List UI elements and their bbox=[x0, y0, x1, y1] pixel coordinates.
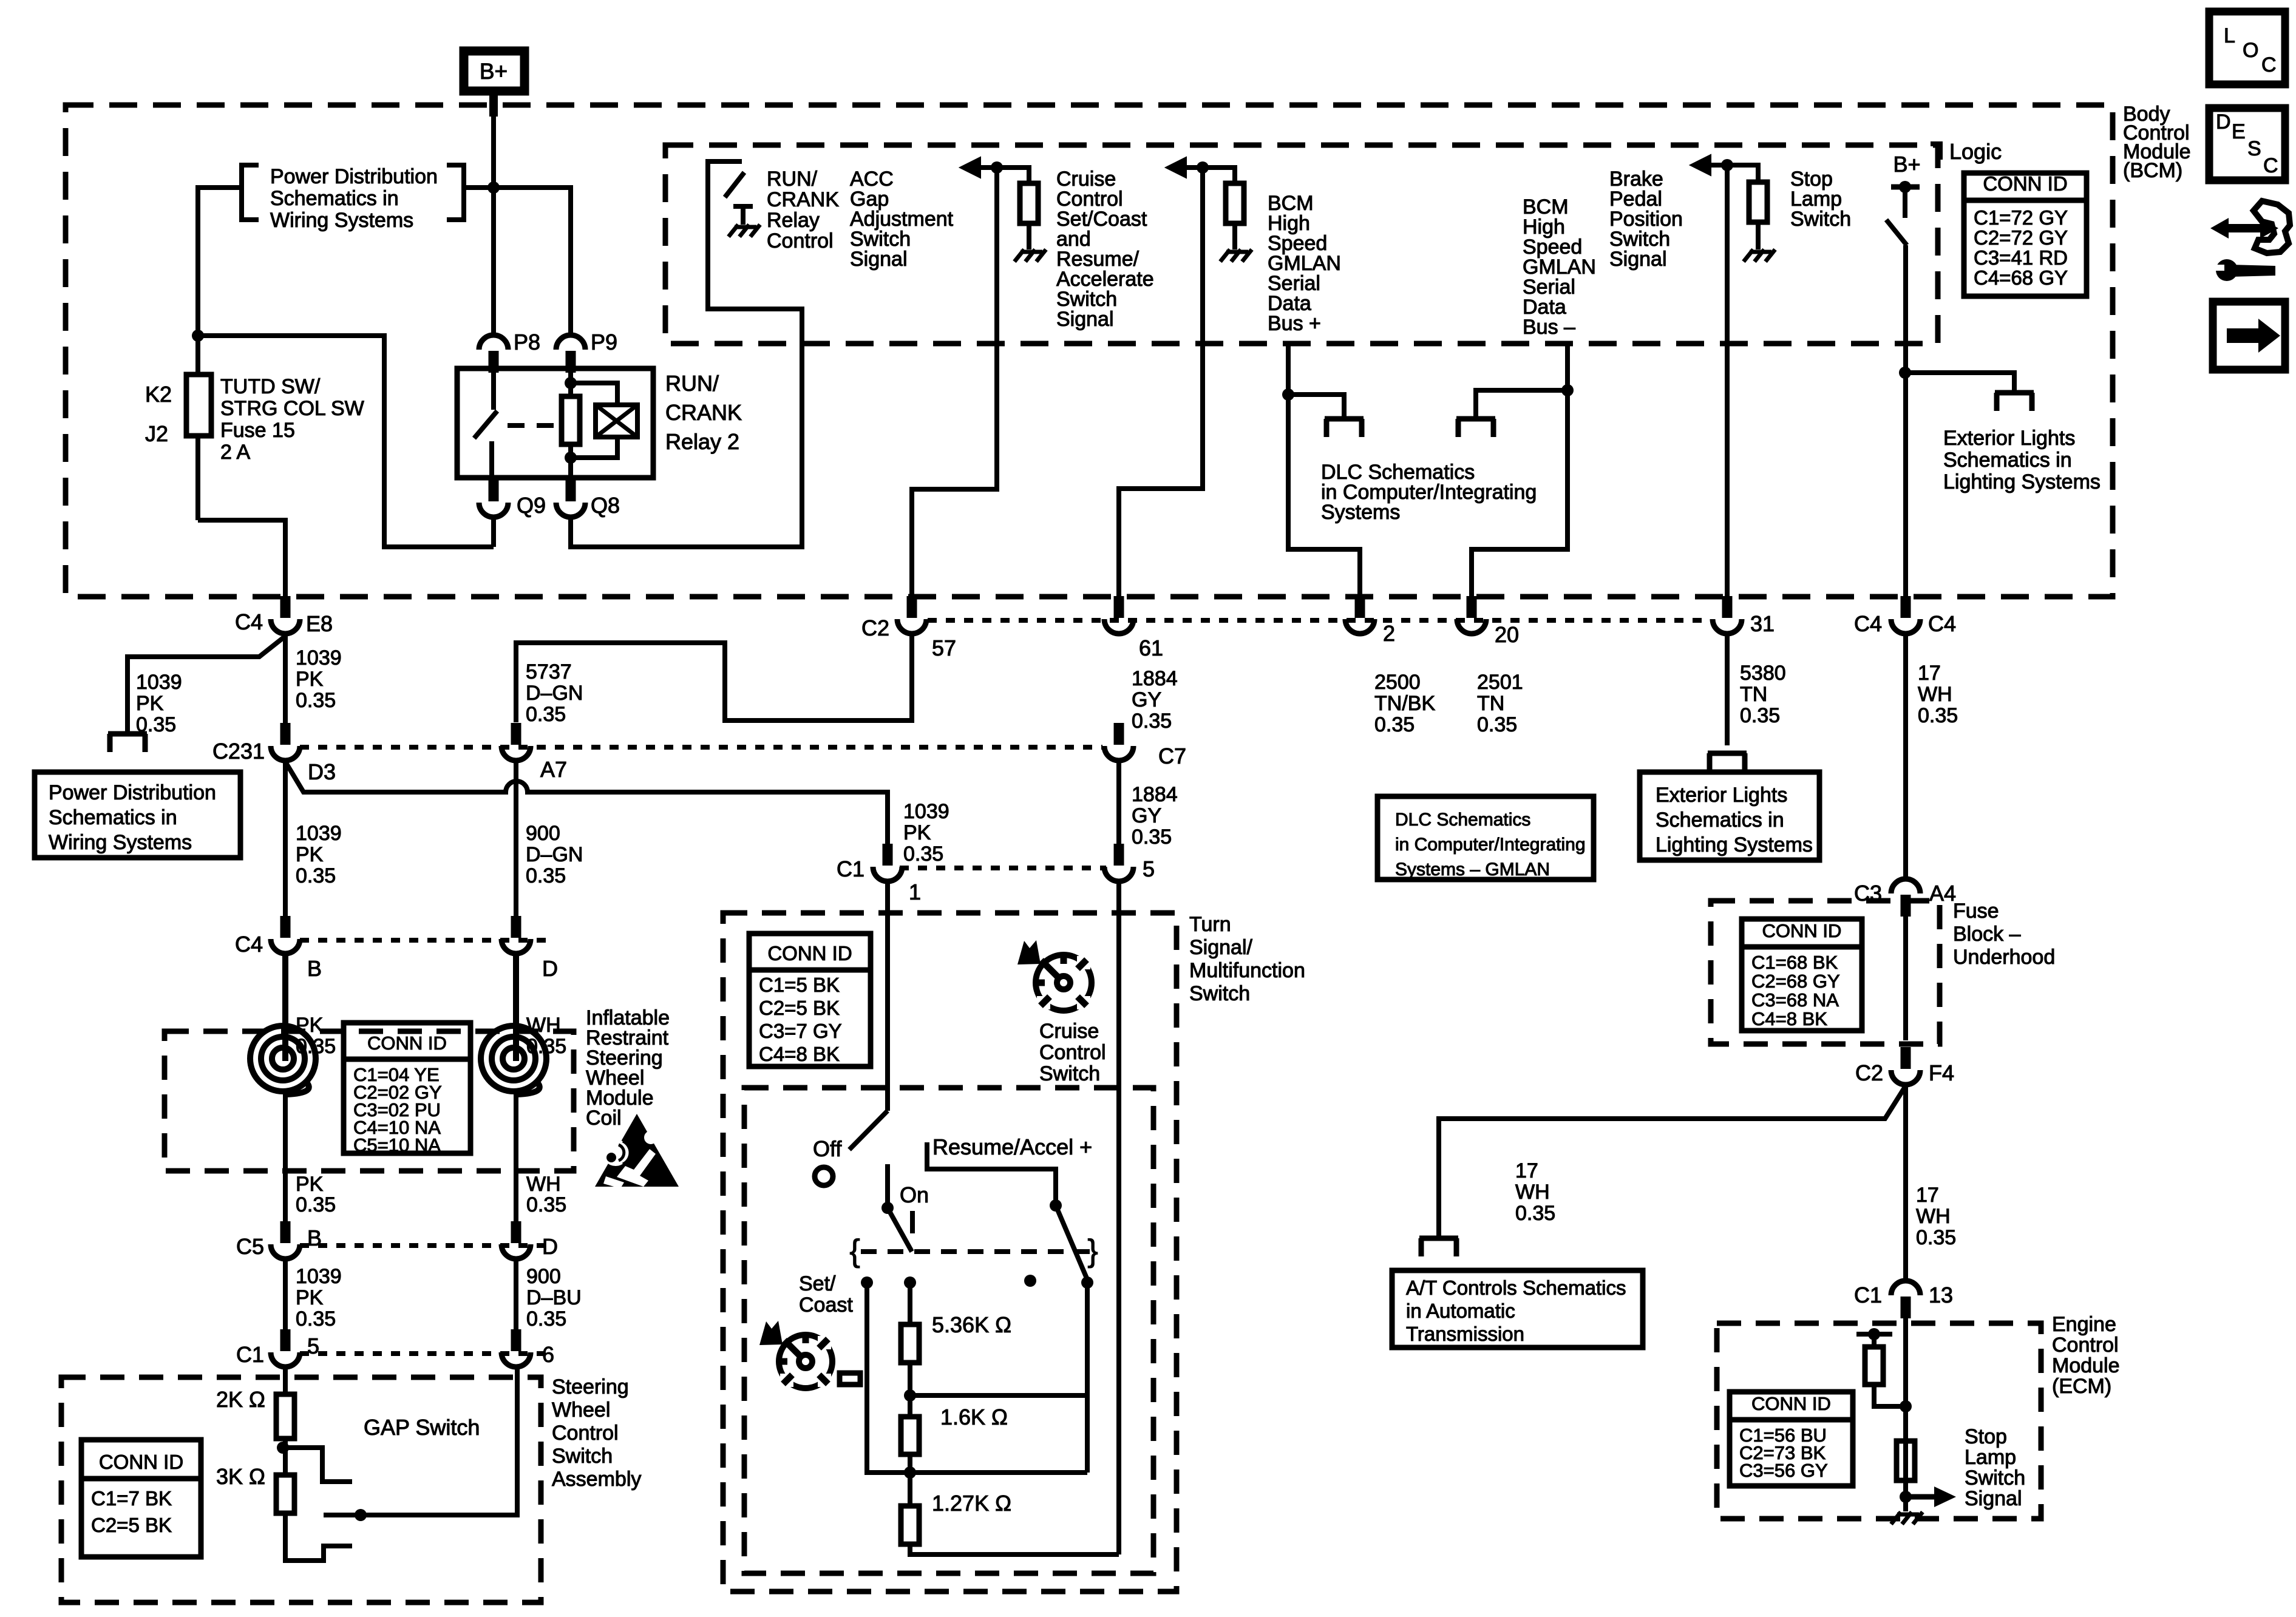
svg-text:GY: GY bbox=[1132, 804, 1161, 827]
connector C5/B bbox=[280, 1221, 291, 1243]
svg-text:O: O bbox=[2243, 39, 2258, 62]
off-page fork: exterior lights (left) bbox=[1708, 751, 1747, 756]
wire: B into coil bbox=[282, 955, 288, 1061]
wire: junction to Q9 return loop bbox=[198, 336, 494, 547]
svg-text:Schematics in: Schematics in bbox=[1943, 449, 2072, 472]
wire: R/A contact down bbox=[1085, 1283, 1090, 1473]
node: ECM junction bbox=[1900, 1400, 1912, 1412]
svg-text:A7: A7 bbox=[540, 757, 567, 782]
wire: GMLAN bus + to DLC and connector 2 bbox=[1288, 344, 1360, 598]
svg-text:Signal: Signal bbox=[850, 248, 908, 271]
connector C7 bbox=[1114, 723, 1124, 745]
node: group1 junction bbox=[991, 161, 1003, 174]
svg-text:C3=41 RD: C3=41 RD bbox=[1974, 246, 2068, 269]
node: R/A blade pivot bbox=[1050, 1199, 1062, 1212]
svg-text:Steering: Steering bbox=[552, 1375, 629, 1398]
switch blade: On to common bbox=[888, 1208, 912, 1252]
svg-text:C2: C2 bbox=[1855, 1060, 1883, 1085]
svg-text:Lamp: Lamp bbox=[1965, 1446, 2016, 1469]
svg-text:0.35: 0.35 bbox=[1132, 825, 1172, 849]
svg-text:C1: C1 bbox=[837, 856, 864, 881]
switch blade: Resume/Accel bbox=[1056, 1205, 1087, 1280]
table: ECM CONN ID bbox=[1730, 1392, 1853, 1486]
svg-text:Lighting Systems: Lighting Systems bbox=[1943, 470, 2101, 493]
svg-text:2500: 2500 bbox=[1374, 671, 1421, 694]
module box: Body Control Module (BCM) outer dashed border bbox=[66, 105, 2113, 597]
svg-text:Logic: Logic bbox=[1949, 139, 2002, 164]
table: GAP CONN ID bbox=[81, 1440, 201, 1557]
svg-text:Fuse: Fuse bbox=[1953, 900, 1999, 923]
svg-text:C1: C1 bbox=[236, 1342, 264, 1367]
svg-text:C5=10 NA: C5=10 NA bbox=[353, 1134, 441, 1156]
wire: GAP output to connector 6 bbox=[324, 1368, 517, 1515]
svg-text:D: D bbox=[2216, 110, 2231, 134]
svg-text:CONN ID: CONN ID bbox=[367, 1032, 447, 1054]
svg-text:DLC Schematics: DLC Schematics bbox=[1395, 810, 1530, 830]
svg-text:D–GN: D–GN bbox=[526, 682, 583, 705]
svg-text:PK: PK bbox=[296, 1173, 324, 1196]
connector 6 bbox=[511, 1329, 521, 1351]
svg-text:17: 17 bbox=[1916, 1184, 1939, 1207]
resistor 5.36K bbox=[901, 1324, 919, 1363]
contact tick: On bbox=[910, 1211, 915, 1233]
svg-text:C1: C1 bbox=[1854, 1283, 1882, 1307]
relay coil resistor bbox=[565, 377, 577, 389]
svg-text:WH: WH bbox=[526, 1173, 561, 1196]
svg-text:Switch: Switch bbox=[1790, 208, 1851, 231]
connector A7 bbox=[511, 723, 521, 745]
node: pull-up bar bbox=[1868, 1328, 1880, 1340]
resistor: ECM sense bbox=[1897, 1441, 1915, 1480]
svg-text:Bus –: Bus – bbox=[1523, 316, 1575, 339]
wire: C231 dotted connector line bbox=[300, 745, 1102, 750]
wire: 1.27K to switch output 5 bbox=[910, 1544, 1119, 1554]
svg-text:6: 6 bbox=[542, 1342, 554, 1367]
svg-text:Wiring Systems: Wiring Systems bbox=[270, 209, 413, 232]
svg-text:Switch: Switch bbox=[1189, 982, 1250, 1005]
svg-text:C: C bbox=[2263, 154, 2278, 177]
module box: Engine Control Module (ECM) dashed bbox=[1717, 1323, 2041, 1519]
svg-text:(ECM): (ECM) bbox=[2052, 1375, 2111, 1398]
icon: bidirectional communication / tool bbox=[2210, 218, 2278, 239]
svg-text:Signal: Signal bbox=[1609, 248, 1667, 271]
wire: C1-1 into switch bbox=[885, 883, 890, 1111]
svg-text:Schematics in: Schematics in bbox=[49, 806, 177, 829]
svg-text:in Automatic: in Automatic bbox=[1406, 1300, 1515, 1322]
node: group3 junction bbox=[1721, 159, 1733, 171]
connector C1/1 bbox=[883, 844, 893, 866]
svg-text:in Computer/Integrating: in Computer/Integrating bbox=[1395, 835, 1586, 855]
svg-text:5380: 5380 bbox=[1740, 662, 1786, 685]
connector C1/13 bbox=[1901, 1297, 1911, 1318]
wire: F4 to C1-13 bbox=[1903, 1086, 1908, 1280]
svg-text:GAP Switch: GAP Switch bbox=[364, 1415, 480, 1440]
svg-text:20: 20 bbox=[1495, 622, 1519, 647]
wire: C1 connector dotted line bbox=[300, 1351, 549, 1356]
wire: node to ground bbox=[1903, 1497, 1908, 1511]
wire: bracket left to fuse bbox=[198, 185, 242, 190]
wire: to pull-up resistor bbox=[997, 168, 1029, 183]
wire: 900 D-GN A7 down to D bbox=[514, 762, 518, 918]
wire: GMLAN bus - to DLC and connector 20 bbox=[1472, 344, 1567, 598]
signal arrow: Stop Lamp Switch Signal (ECM) bbox=[1906, 1494, 1934, 1500]
svg-text:Switch: Switch bbox=[552, 1445, 613, 1468]
connector 61 bbox=[1114, 596, 1124, 618]
wire: resistor to ground bbox=[1027, 223, 1031, 249]
svg-text:C4: C4 bbox=[235, 609, 263, 634]
svg-text:}: } bbox=[1087, 1233, 1098, 1269]
connector 31 bbox=[1722, 596, 1733, 618]
power symbol B+ box bbox=[464, 51, 525, 91]
connector C4/B bbox=[280, 916, 291, 938]
wire: bracket to B+ line bbox=[464, 185, 494, 190]
svg-text:D–BU: D–BU bbox=[526, 1286, 582, 1309]
svg-text:CONN ID: CONN ID bbox=[767, 942, 852, 964]
inner dashed box: BCM input/logic section bbox=[665, 145, 1938, 344]
wire: cruise connector dotted line bbox=[900, 866, 1106, 870]
svg-text:13: 13 bbox=[1929, 1283, 1953, 1307]
resistor: group3 pull-up bbox=[1749, 182, 1767, 222]
wire: 1.6K to 1.27K bbox=[908, 1454, 912, 1506]
wire: F4 to A/T controls bbox=[1439, 1086, 1906, 1236]
svg-text:0.35: 0.35 bbox=[1918, 704, 1958, 727]
svg-text:D: D bbox=[542, 1234, 558, 1259]
svg-text:STRG COL SW: STRG COL SW bbox=[220, 397, 364, 420]
wire: C4 to fuse block bbox=[1903, 635, 1908, 878]
node: junction B+ / power distribution tap bbox=[487, 181, 500, 194]
svg-text:Control: Control bbox=[1039, 1041, 1106, 1064]
svg-text:PK: PK bbox=[903, 821, 931, 844]
svg-text:RUN/: RUN/ bbox=[767, 168, 818, 191]
svg-text:5737: 5737 bbox=[526, 660, 572, 683]
resistor 3K bbox=[276, 1475, 294, 1513]
svg-text:D–GN: D–GN bbox=[526, 843, 583, 866]
svg-text:2: 2 bbox=[1383, 621, 1395, 646]
wire: steering coil connector dotted line bbox=[300, 938, 549, 943]
module box: Fuse Block - Underhood (dashed) bbox=[1711, 901, 1940, 1044]
wire: fuse to E8 connector bbox=[198, 520, 285, 601]
svg-text:2K Ω: 2K Ω bbox=[216, 1387, 265, 1412]
node: group2 junction bbox=[1197, 161, 1209, 174]
svg-text:17: 17 bbox=[1515, 1159, 1538, 1182]
wire: 1039 PK from D3 to cruise switch C1-1 bbox=[283, 762, 288, 789]
svg-text:0.35: 0.35 bbox=[296, 1193, 336, 1216]
node: DLC tap + bbox=[1282, 388, 1294, 401]
connector C2/57 bbox=[907, 596, 917, 618]
node: fuse top junction bbox=[192, 330, 204, 342]
wire: tap to exterior lights fork bbox=[1905, 373, 2014, 391]
wire: 31 to exterior lights fork bbox=[1725, 635, 1730, 745]
wire: 1884 GY C7 down to 5 bbox=[1116, 762, 1121, 844]
svg-text:0.35: 0.35 bbox=[526, 864, 566, 887]
svg-text:B: B bbox=[307, 956, 322, 981]
resistor 1.27K bbox=[901, 1506, 919, 1544]
wire: logic switch down to C4 bbox=[1903, 245, 1908, 598]
pin P9 connector bbox=[566, 351, 576, 373]
svg-text:1.6K Ω: 1.6K Ω bbox=[940, 1405, 1008, 1429]
reference box: A/T Controls Schematics in Automatic Transmission bbox=[1392, 1270, 1643, 1347]
svg-text:Bus +: Bus + bbox=[1268, 312, 1321, 335]
node: GAP output junction bbox=[355, 1509, 367, 1521]
svg-text:1884: 1884 bbox=[1132, 667, 1178, 690]
svg-text:PK: PK bbox=[296, 843, 324, 866]
svg-text:C1=72 GY: C1=72 GY bbox=[1974, 206, 2068, 229]
wire: On feed stub bbox=[885, 1164, 890, 1207]
wire: group1 down to C2-57 bbox=[912, 168, 997, 598]
svg-text:B: B bbox=[307, 1225, 322, 1250]
switch blade: Off bbox=[849, 1111, 888, 1150]
svg-text:5: 5 bbox=[307, 1334, 319, 1358]
svg-text:J2: J2 bbox=[145, 421, 168, 446]
svg-text:1.27K Ω: 1.27K Ω bbox=[932, 1491, 1011, 1516]
svg-text:(BCM): (BCM) bbox=[2123, 159, 2182, 182]
wire: junction to R/A vertical bbox=[910, 1393, 1087, 1398]
connector 5 bbox=[1114, 844, 1124, 866]
wire: coil right down bbox=[514, 1093, 518, 1221]
wire: D to 6 bbox=[514, 1260, 518, 1331]
svg-text:2 A: 2 A bbox=[220, 441, 250, 464]
svg-text:E8: E8 bbox=[306, 611, 333, 636]
svg-text:1: 1 bbox=[909, 880, 921, 904]
wire: 5 into GAP divider bbox=[283, 1368, 288, 1394]
coil: steering wheel module coil right bbox=[503, 1048, 525, 1070]
svg-text:Module: Module bbox=[2052, 1354, 2120, 1377]
icon: airbag warning triangle bbox=[595, 1114, 679, 1187]
ground: group2 bbox=[1220, 249, 1230, 262]
resistor 2K bbox=[276, 1394, 294, 1439]
svg-text:57: 57 bbox=[932, 636, 956, 660]
off-page fork: power distribution bbox=[108, 731, 147, 737]
svg-text:17: 17 bbox=[1918, 662, 1941, 685]
svg-text:Wheel: Wheel bbox=[552, 1398, 610, 1422]
svg-text:K2: K2 bbox=[145, 382, 172, 407]
svg-text:Signal: Signal bbox=[1056, 308, 1114, 331]
svg-text:B+: B+ bbox=[1893, 152, 1920, 177]
svg-text:Multifunction: Multifunction bbox=[1189, 959, 1305, 982]
svg-text:Power Distribution: Power Distribution bbox=[270, 165, 438, 188]
icon: LOC box bbox=[2209, 12, 2285, 84]
svg-text:TN: TN bbox=[1477, 692, 1504, 715]
coil: steering wheel module coil left bbox=[272, 1048, 294, 1070]
ground: group3 bbox=[1744, 249, 1753, 262]
svg-text:Schematics in: Schematics in bbox=[270, 187, 399, 210]
svg-text:61: 61 bbox=[1139, 636, 1163, 660]
svg-text:Coil: Coil bbox=[586, 1107, 622, 1130]
off-page fork: DLC - bbox=[1456, 416, 1495, 422]
svg-text:Q8: Q8 bbox=[591, 493, 620, 518]
table: fuse block CONN ID bbox=[1742, 919, 1862, 1031]
module box: Steering Wheel Control Switch Assembly (dashed) bbox=[61, 1377, 541, 1602]
pin Q8 connector bbox=[566, 480, 576, 501]
reference box: Power Distribution Schematics in Wiring Systems bbox=[35, 772, 240, 858]
table: BCM CONN ID bbox=[1964, 173, 2087, 296]
relay switch contact bbox=[491, 368, 496, 410]
off-page fork: exterior lights (right) bbox=[1995, 390, 2034, 396]
svg-text:C4: C4 bbox=[1928, 611, 1956, 636]
svg-text:CRANK: CRANK bbox=[665, 400, 742, 425]
svg-text:F4: F4 bbox=[1929, 1060, 1954, 1085]
connector C231/D3 bbox=[280, 723, 291, 745]
connector C2/F4 bbox=[1901, 1047, 1911, 1069]
svg-text:Power Distribution: Power Distribution bbox=[49, 781, 216, 804]
svg-text:2501: 2501 bbox=[1477, 671, 1523, 694]
svg-text:Engine: Engine bbox=[2052, 1313, 2116, 1336]
relay coil X-box symbol bbox=[571, 383, 617, 405]
svg-text:Underhood: Underhood bbox=[1953, 946, 2055, 969]
off-page fork: A/T controls bbox=[1419, 1236, 1458, 1241]
wire: branch to P9 bbox=[494, 188, 571, 335]
corner mark: logic area bbox=[1931, 144, 1940, 160]
svg-text:Systems: Systems bbox=[1321, 501, 1400, 524]
svg-text:0.35: 0.35 bbox=[526, 1307, 566, 1331]
icon: set/coast symbol (gauge) bbox=[779, 1335, 832, 1388]
wire: pull-up to main bbox=[1874, 1385, 1906, 1406]
svg-text:C231: C231 bbox=[212, 739, 265, 764]
signal arrow: ACC Gap Adjustment Switch Signal bbox=[960, 157, 980, 178]
svg-text:Control: Control bbox=[2052, 1334, 2119, 1357]
svg-text:Exterior Lights: Exterior Lights bbox=[1943, 427, 2075, 450]
svg-text:C1=68 BK: C1=68 BK bbox=[1751, 952, 1838, 973]
switch contact: GAP upper bbox=[283, 1448, 352, 1482]
svg-text:Exterior Lights: Exterior Lights bbox=[1656, 784, 1787, 807]
node: Set/Coast contact bbox=[861, 1276, 873, 1289]
svg-text:0.35: 0.35 bbox=[1740, 704, 1780, 727]
switch common dashed bar bbox=[861, 1249, 1090, 1254]
module box: cruise switch contacts (inner dashed) bbox=[744, 1088, 1153, 1573]
svg-text:GY: GY bbox=[1132, 688, 1161, 711]
svg-text:31: 31 bbox=[1750, 611, 1775, 636]
svg-text:P9: P9 bbox=[591, 330, 617, 354]
svg-text:CONN ID: CONN ID bbox=[1751, 1393, 1831, 1414]
svg-text:C2: C2 bbox=[861, 615, 889, 640]
svg-text:C3=56 GY: C3=56 GY bbox=[1739, 1460, 1828, 1481]
wire: C5 connector dotted line bbox=[300, 1243, 549, 1248]
svg-text:0.35: 0.35 bbox=[296, 1307, 336, 1331]
contact: Off (open circle) bbox=[815, 1167, 833, 1185]
svg-text:WH: WH bbox=[1916, 1205, 1951, 1228]
svg-text:Transmission: Transmission bbox=[1406, 1323, 1524, 1345]
node: DLC tap - bbox=[1561, 384, 1574, 396]
svg-text:C1=7 BK: C1=7 BK bbox=[91, 1487, 172, 1510]
off-page fork: DLC + bbox=[1325, 416, 1364, 422]
svg-text:A/T Controls Schematics: A/T Controls Schematics bbox=[1406, 1276, 1626, 1299]
svg-text:PK: PK bbox=[296, 1286, 324, 1309]
svg-text:0.35: 0.35 bbox=[526, 1193, 566, 1216]
wire: bar to resistor bbox=[1872, 1334, 1877, 1347]
svg-text:B+: B+ bbox=[480, 59, 508, 84]
svg-text:Relay: Relay bbox=[767, 209, 820, 232]
svg-text:CONN ID: CONN ID bbox=[1762, 920, 1842, 941]
connector D (coil) bbox=[511, 916, 521, 938]
svg-text:CRANK: CRANK bbox=[767, 188, 839, 211]
svg-text:Switch: Switch bbox=[1965, 1466, 2025, 1490]
svg-text:0.35: 0.35 bbox=[1916, 1226, 1956, 1249]
wire: group3 down to 31 bbox=[1725, 165, 1730, 598]
wire: 1039 PK D3 down to C4-B bbox=[283, 762, 288, 918]
svg-text:C5: C5 bbox=[236, 1234, 264, 1259]
reference box: DLC Schematics in Computer/Integrating Systems - GMLAN bbox=[1377, 796, 1594, 880]
ground: relay control driver bbox=[741, 204, 746, 225]
module box: Turn Signal/Multifunction Switch (dashed) bbox=[723, 913, 1177, 1592]
wire: circuit 1884 output column 5 bbox=[1116, 883, 1121, 1554]
svg-text:Control: Control bbox=[552, 1422, 619, 1445]
wire: B+ down to P8 bbox=[489, 95, 498, 117]
svg-text:RUN/: RUN/ bbox=[665, 371, 719, 396]
svg-text:Coast: Coast bbox=[799, 1293, 853, 1317]
resistor: group1 pull-up bbox=[1020, 183, 1038, 223]
svg-text:Block –: Block – bbox=[1953, 923, 2021, 946]
svg-text:Wiring Systems: Wiring Systems bbox=[49, 831, 192, 854]
svg-text:PK: PK bbox=[136, 692, 164, 715]
svg-text:3K Ω: 3K Ω bbox=[216, 1464, 265, 1489]
svg-text:C4: C4 bbox=[235, 932, 263, 957]
reference box: Exterior Lights Schematics in Lighting Systems bbox=[1640, 772, 1819, 860]
wire: Q9 to fuse loop bbox=[491, 518, 496, 547]
svg-text:C4=8 BK: C4=8 BK bbox=[759, 1043, 840, 1065]
svg-text:1884: 1884 bbox=[1132, 783, 1178, 806]
svg-text:C4=8 BK: C4=8 BK bbox=[1751, 1008, 1827, 1029]
svg-text:1039: 1039 bbox=[296, 822, 342, 845]
svg-text:Assembly: Assembly bbox=[552, 1468, 641, 1491]
svg-text:C2=72 GY: C2=72 GY bbox=[1974, 226, 2068, 249]
module box: Inflatable Restraint Steering Wheel Module Coil (dashed) bbox=[165, 1031, 574, 1171]
svg-text:0.35: 0.35 bbox=[296, 689, 336, 712]
relay actuation dashed link bbox=[508, 423, 554, 428]
connector C3/A4 bbox=[1901, 895, 1911, 917]
svg-text:0.35: 0.35 bbox=[1477, 713, 1517, 736]
table: cruise switch CONN ID bbox=[749, 934, 871, 1066]
off-page reference: Power Distribution Schematics in Wiring Systems (top) bbox=[242, 165, 259, 220]
wire: 5737 D-GN from C2-57 to A7 bbox=[516, 635, 912, 722]
wire: Set/Coast contact down bbox=[867, 1283, 1087, 1473]
svg-text:900: 900 bbox=[526, 1265, 561, 1288]
wire: Q8 to relay control bbox=[571, 344, 802, 547]
svg-text:Systems – GMLAN: Systems – GMLAN bbox=[1395, 859, 1550, 880]
internal pull-up bar bbox=[1856, 1332, 1892, 1337]
svg-text:D3: D3 bbox=[308, 759, 336, 784]
svg-text:D: D bbox=[542, 956, 558, 981]
wire: through fuse block bbox=[1903, 915, 1908, 1040]
svg-text:{: { bbox=[849, 1233, 860, 1269]
svg-text:Cruise: Cruise bbox=[1039, 1020, 1099, 1043]
svg-text:0.35: 0.35 bbox=[903, 842, 943, 866]
connector D (lower) bbox=[511, 1221, 521, 1243]
connector 2 bbox=[1355, 596, 1365, 618]
svg-text:Fuse 15: Fuse 15 bbox=[220, 419, 295, 442]
svg-text:P8: P8 bbox=[514, 330, 540, 354]
svg-text:900: 900 bbox=[526, 822, 560, 845]
svg-text:C1=5 BK: C1=5 BK bbox=[759, 974, 840, 996]
ground: ECM bbox=[1891, 1512, 1901, 1524]
svg-text:Signal: Signal bbox=[1965, 1487, 2022, 1510]
svg-text:C2=68 GY: C2=68 GY bbox=[1751, 971, 1840, 992]
svg-text:Signal/: Signal/ bbox=[1189, 936, 1253, 959]
svg-text:Relay 2: Relay 2 bbox=[665, 429, 739, 454]
wire: E8 to power distribution reference bbox=[283, 635, 288, 725]
logic output: RUN/CRANK Relay Control driver bbox=[708, 161, 802, 344]
node: Resume/Accel contact bbox=[1081, 1276, 1093, 1289]
pin P8 connector bbox=[489, 351, 499, 373]
resistor: group2 pull-up bbox=[1226, 183, 1244, 223]
svg-text:1039: 1039 bbox=[296, 646, 342, 670]
node: 1.6K/1.27K junction bbox=[904, 1466, 916, 1479]
svg-text:Schematics in: Schematics in bbox=[1656, 808, 1784, 832]
svg-text:E: E bbox=[2232, 120, 2246, 143]
signal arrow: Cruise Control Set/Coast and Resume/Accelerate Switch Signal bbox=[1166, 157, 1186, 178]
svg-text:A4: A4 bbox=[1929, 881, 1956, 906]
svg-text:C2=5 BK: C2=5 BK bbox=[759, 997, 840, 1019]
svg-text:L: L bbox=[2224, 24, 2235, 47]
